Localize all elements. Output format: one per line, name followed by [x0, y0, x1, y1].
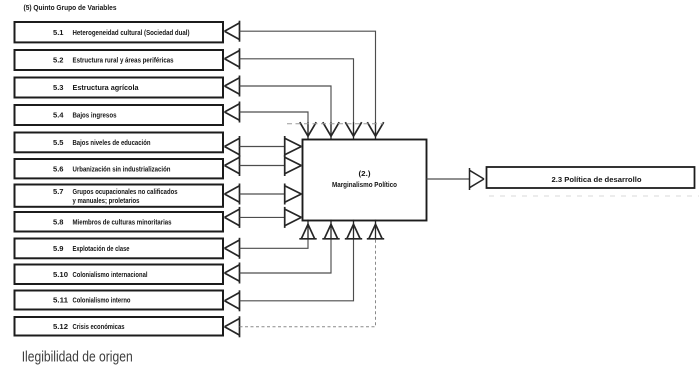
box 5.3 Estructura agrícola	[15, 78, 224, 98]
wire from 5.9 to bottom of central box	[240, 220, 317, 249]
box 5.9 Explotación de clase	[15, 239, 224, 259]
wire from central box to box 2.3	[427, 168, 485, 190]
svg-text:Estructura agrícola: Estructura agrícola	[73, 85, 139, 92]
arrowhead into box 5.5	[225, 136, 240, 157]
svg-text:5.7: 5.7	[53, 189, 64, 196]
wire between 5.8 and left side of central box	[240, 207, 302, 228]
svg-text:2.3 Política de desarrollo: 2.3 Política de desarrollo	[552, 177, 642, 184]
svg-text:5.6: 5.6	[53, 166, 64, 173]
svg-text:Colonialismo interno: Colonialismo interno	[73, 298, 131, 305]
box 5.5 Bajos niveles de educación	[15, 133, 224, 153]
svg-text:Urbanización sin industrializa: Urbanización sin industrialización	[73, 166, 171, 173]
wire from 5.10 to bottom of central box	[240, 220, 340, 273]
svg-text:Ilegibilidad de origen: Ilegibilidad de origen	[22, 349, 133, 365]
box 5.10 Colonialismo internacional	[15, 265, 224, 285]
wire from 5.2 to top of central box	[240, 59, 362, 139]
svg-text:Estructura rural y áreas perif: Estructura rural y áreas periféricas	[73, 58, 174, 65]
svg-text:5.12: 5.12	[53, 324, 68, 331]
svg-text:Heterogeneidad cultural (Socie: Heterogeneidad cultural (Sociedad dual)	[73, 30, 190, 37]
title: (5) Quinto Grupo de Variables	[24, 3, 117, 12]
arrowhead into box 5.4	[225, 102, 240, 123]
svg-text:5.8: 5.8	[53, 219, 64, 226]
wire between 5.7 and left side of central box	[240, 184, 302, 205]
wire from 5.12 to bottom of central box	[240, 220, 385, 327]
wire from 5.3 to top of central box	[240, 86, 340, 139]
svg-text:y manuales; proletarios: y manuales; proletarios	[73, 198, 140, 205]
wire between 5.6 and left side of central box	[240, 155, 302, 176]
arrowhead into box 5.6	[225, 155, 240, 176]
box 5.8 Miembros de culturas minoritarias	[15, 212, 224, 232]
box 5.1 Heterogeneidad cultural (Sociedad dual)	[15, 22, 224, 42]
caption: Ilegibilidad de origen	[22, 349, 133, 365]
svg-text:5.4: 5.4	[53, 113, 64, 120]
arrowhead into box 5.9	[225, 238, 240, 259]
svg-text:Colonialismo internacional: Colonialismo internacional	[73, 272, 148, 279]
faint ghost line across top arrowheads	[287, 123, 383, 125]
arrowhead into box 5.7	[225, 184, 240, 205]
arrowhead into box 5.12	[225, 316, 240, 337]
svg-text:Grupos ocupacionales no califi: Grupos ocupacionales no calificados	[73, 189, 178, 196]
svg-text:(2.): (2.)	[359, 171, 371, 178]
svg-text:Bajos niveles de educación: Bajos niveles de educación	[73, 140, 151, 147]
arrowhead into box 5.2	[225, 48, 240, 69]
arrowhead into box 5.8	[225, 207, 240, 228]
wire between 5.5 and left side of central box	[240, 136, 302, 157]
svg-text:Miembros de culturas minoritar: Miembros de culturas minoritarias	[73, 219, 172, 226]
svg-text:5.9: 5.9	[53, 246, 64, 253]
box 5.12 Crisis económicas	[15, 317, 224, 336]
svg-text:5.2: 5.2	[53, 58, 64, 65]
svg-text:5.3: 5.3	[53, 85, 64, 92]
box 5.4 Bajos ingresos	[15, 105, 224, 125]
svg-text:Marginalismo Político: Marginalismo Político	[332, 182, 397, 189]
svg-text:5.11: 5.11	[53, 298, 68, 305]
box 2.3 Politica de desarrollo	[487, 167, 699, 196]
svg-text:Explotación de clase: Explotación de clase	[73, 246, 130, 253]
svg-text:5.10: 5.10	[53, 272, 68, 279]
central box (2.) Marginalismo Politico	[303, 140, 427, 221]
arrowhead into box 5.11	[225, 290, 240, 311]
arrowhead into box 5.3	[225, 76, 240, 97]
arrowhead into box 5.10	[225, 263, 240, 284]
svg-text:5.1: 5.1	[53, 30, 64, 37]
wire from 5.1 to top of central box	[240, 31, 384, 139]
box 5.2 Estructura rural y áreas periféricas	[15, 50, 224, 70]
box 5.6 Urbanización sin industrialización	[15, 159, 224, 178]
box 5.7 Grupos ocupacionales no calificados	[15, 185, 224, 207]
svg-text:Crisis económicas: Crisis económicas	[73, 324, 125, 331]
arrowhead into box 5.1	[225, 21, 240, 42]
wire from 5.4 to top of central box	[240, 112, 317, 139]
svg-text:(5) Quinto Grupo de Variables: (5) Quinto Grupo de Variables	[24, 3, 117, 12]
svg-text:5.5: 5.5	[53, 140, 64, 147]
svg-text:Bajos ingresos: Bajos ingresos	[73, 113, 117, 120]
box 5.11 Colonialismo interno	[15, 291, 224, 310]
wire from 5.11 to bottom of central box	[240, 220, 363, 301]
